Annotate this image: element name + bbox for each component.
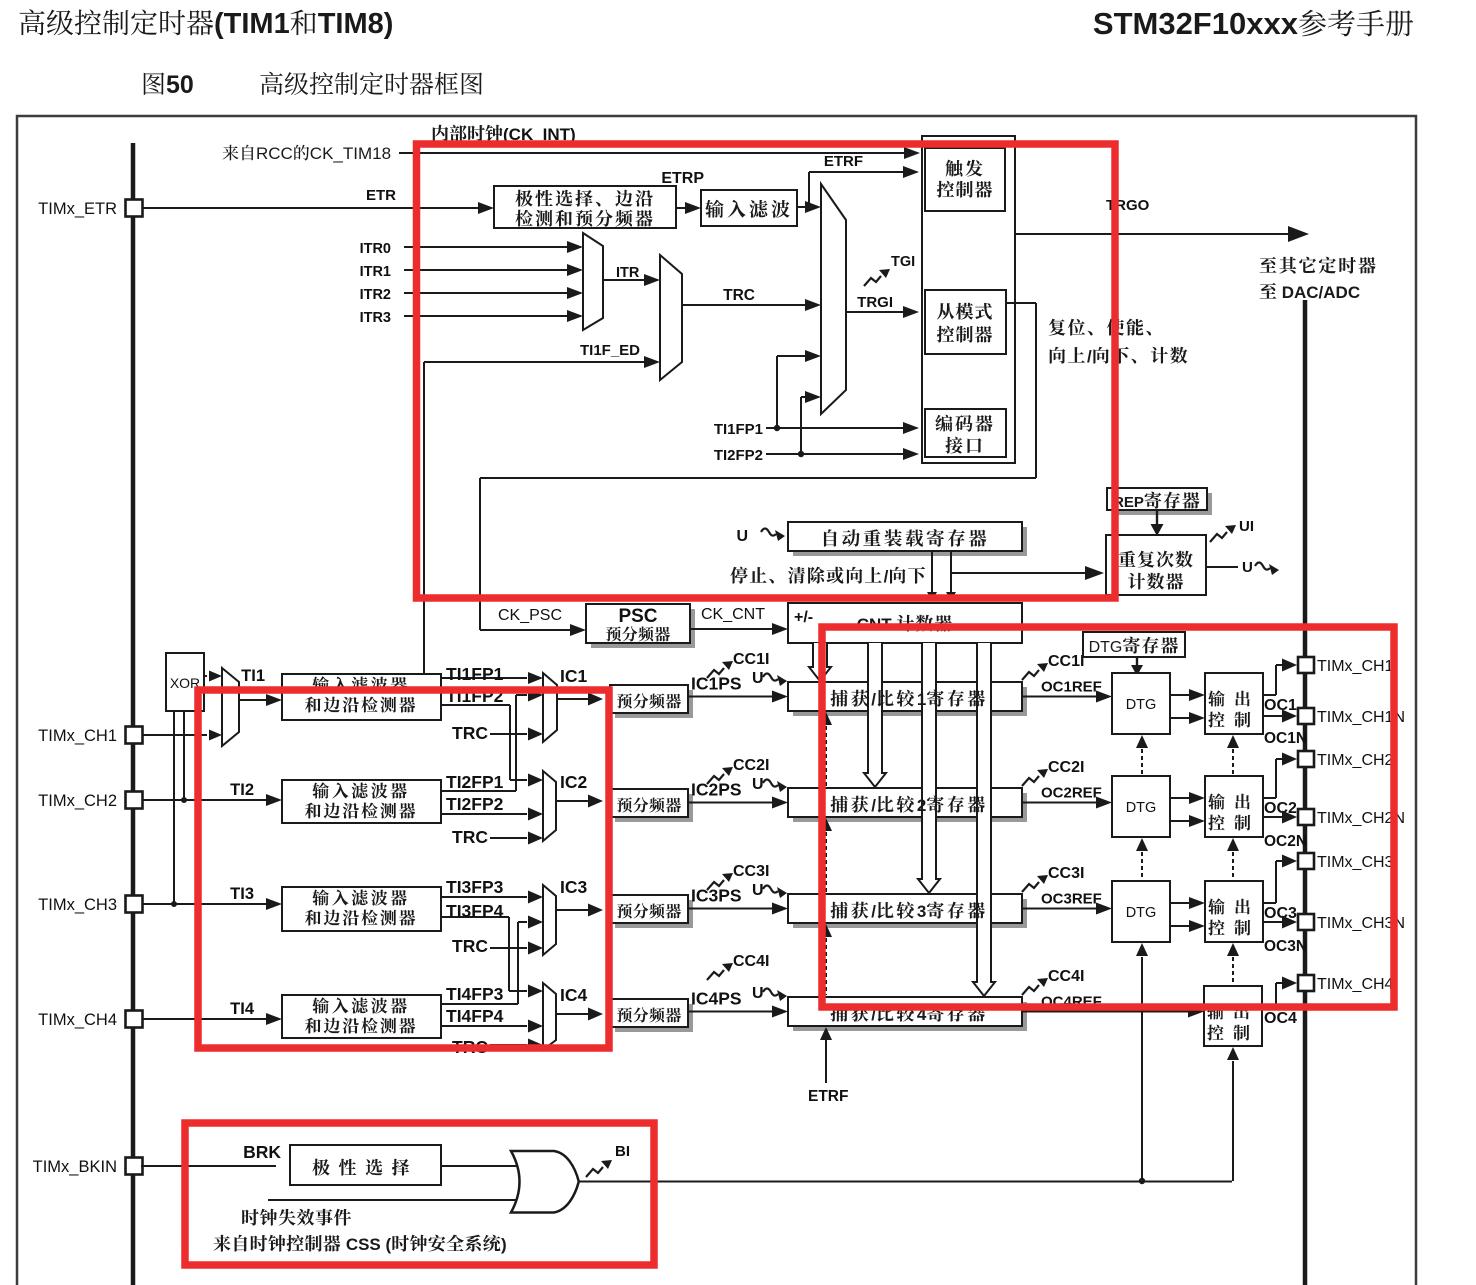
wire BRK from TIMx_BKIN [141, 1165, 276, 1167]
label 时钟失效事件 [242, 1209, 351, 1226]
box input filter & edge detector 3 输入滤波器和边沿检测器 [282, 887, 441, 931]
svg-text:50: 50 [166, 71, 194, 99]
svg-text:U: U [736, 528, 748, 545]
label 停止、清除或向上/向下 [730, 567, 882, 584]
wire ARR to CNT (x2) [931, 551, 933, 594]
svg-text:+/-: +/- [794, 609, 813, 626]
svg-text:TI4FP4: TI4FP4 [446, 1006, 504, 1026]
svg-text:CK_TIM18: CK_TIM18 [310, 144, 391, 163]
wire IC4PS [688, 1011, 773, 1013]
wire ITR3 [404, 315, 568, 317]
wire polarity select to OR gate [441, 1165, 520, 1167]
wire OC2N to TIMx_CH2N [1263, 816, 1283, 818]
svg-text:OC3REF: OC3REF [1041, 891, 1102, 908]
wire OC1REF [1022, 696, 1097, 698]
label 来自RCC的CK_TIM18 [223, 145, 254, 161]
wire OC3N to TIMx_CH3N [1263, 921, 1283, 923]
svg-text:CC4I: CC4I [733, 953, 769, 970]
svg-text:TI3FP3: TI3FP3 [446, 877, 504, 897]
svg-text:TIMx_CH1: TIMx_CH1 [1317, 658, 1394, 675]
pin TIMx_CH4 [1298, 975, 1314, 991]
wire ETRP [676, 207, 688, 209]
wire IC1PS [688, 696, 773, 698]
svg-text:DTG: DTG [1089, 639, 1123, 656]
IC mux channel 2 [528, 774, 543, 787]
svg-text:TIMx_BKIN: TIMx_BKIN [33, 1158, 117, 1176]
svg-text:/: / [871, 690, 876, 709]
wire TI3 from pin [141, 903, 267, 905]
svg-text:OC3N: OC3N [1264, 938, 1307, 955]
svg-text:TIMx_CH3: TIMx_CH3 [1317, 854, 1394, 871]
svg-text:IC4: IC4 [560, 985, 588, 1005]
pin TIMx_CH4 [141, 1018, 143, 1020]
box input filter & edge detector 4 输入滤波器和边沿检测器 [282, 995, 441, 1038]
wire ETRF to trigger controller and TRGI mux [797, 206, 809, 208]
box capture/compare 4 register 捕获/比较4寄存器 [793, 1002, 1027, 1031]
event BI [586, 1167, 603, 1177]
wire IC3PS [688, 908, 773, 910]
svg-text:CC2I: CC2I [1048, 759, 1084, 776]
svg-text:BI: BI [615, 1143, 630, 1160]
box IC prescaler 1 预分频器 [615, 690, 693, 718]
event CC3I right [1022, 882, 1039, 892]
label 来自时钟控制器CSS (时钟安全系统) [213, 1235, 340, 1252]
svg-text:U: U [752, 776, 764, 793]
svg-text:OC1N: OC1N [1264, 730, 1307, 747]
svg-text:STM32F10xxx: STM32F10xxx [1093, 6, 1299, 41]
svg-text:3: 3 [917, 902, 926, 921]
box output control 2 输出控制 [1205, 776, 1263, 837]
mux TRC (2:1) [660, 255, 682, 380]
svg-text:U: U [752, 985, 764, 1002]
red highlight box 1 (clock/trigger section) [417, 144, 1116, 598]
svg-text:OC2: OC2 [1264, 800, 1297, 817]
wire OC1 to TIMx_CH1 [1263, 694, 1276, 696]
box trigger controller 触发控制器 [925, 148, 1005, 211]
box polarity select 极性选择 [290, 1145, 441, 1185]
svg-text:IC1: IC1 [560, 666, 588, 686]
wire OC3 to TIMx_CH3 [1263, 902, 1276, 904]
box DTG register DTG寄存器 [1083, 632, 1185, 657]
svg-text:DTG: DTG [1126, 800, 1157, 816]
wire TI4 from pin [141, 1018, 267, 1020]
box IC prescaler 3 预分频器 [615, 900, 693, 928]
hollow arrow CNT to CC3 [918, 643, 940, 893]
svg-text:ETR: ETR [366, 187, 396, 204]
svg-text:TIMx_CH4: TIMx_CH4 [38, 1011, 117, 1029]
box XOR [166, 653, 204, 711]
event CC1I right [1022, 670, 1039, 680]
pin TIMx_BKIN [141, 1165, 143, 1167]
box encoder interface 编码器接口 [925, 409, 1006, 457]
wire OC2REF [1022, 802, 1097, 804]
capture event column (dashed) at left of CC boxes [820, 712, 832, 725]
wire CK_TIM18 / CK_INT internal clock [399, 152, 916, 154]
pin TIMx_CH3 [1298, 853, 1314, 869]
svg-text:OC2REF: OC2REF [1041, 785, 1102, 802]
hollow arrow CNT to CC2 [864, 643, 886, 787]
svg-text:U: U [1242, 559, 1253, 576]
svg-text:TGI: TGI [891, 254, 915, 270]
svg-text:TI1: TI1 [241, 667, 265, 685]
svg-text:ITR: ITR [616, 265, 640, 281]
svg-text:TRC: TRC [452, 723, 488, 743]
svg-text:CC3I: CC3I [733, 863, 769, 880]
red highlight box 3 (brake section) [185, 1123, 654, 1265]
svg-text:/: / [1087, 347, 1092, 366]
OR gate [511, 1151, 579, 1213]
svg-text:CC1I: CC1I [733, 651, 769, 668]
wire ITR to TRC mux [603, 279, 645, 281]
wire ETRF into CC4 [820, 1027, 832, 1040]
brake column into DTGs (dashed) [1136, 735, 1148, 748]
red highlight box 4 (capture/compare + output section) [822, 627, 1394, 1007]
svg-text:CSS (: CSS ( [341, 1235, 391, 1254]
pin TIMx_CH3 [141, 903, 143, 905]
box auto-reload register 自动重装载寄存器 [793, 527, 1027, 556]
mux TI1 select [204, 675, 207, 677]
svg-text:TI4FP3: TI4FP3 [446, 984, 504, 1004]
wire ITR2 [404, 292, 568, 294]
svg-text:TI4: TI4 [230, 1000, 255, 1018]
svg-text:CC3I: CC3I [1048, 865, 1084, 882]
pin TIMx_ETR [141, 207, 143, 209]
IC mux channel 4 [528, 985, 543, 998]
pin TIMx_CH2 [141, 799, 143, 801]
wire CK_CNT [690, 628, 773, 630]
svg-text:TI1FP1: TI1FP1 [714, 421, 763, 438]
pin TIMx_CH2 [1298, 751, 1314, 767]
box counter CNT计数器 [788, 603, 1022, 643]
svg-text:DAC/ADC: DAC/ADC [1277, 283, 1360, 302]
box IC prescaler 4 预分频器 [615, 1004, 693, 1032]
svg-text:TIM8): TIM8) [318, 8, 394, 40]
wire OC2 to TIMx_CH2 [1263, 797, 1276, 799]
svg-text:ETRP: ETRP [661, 170, 704, 187]
svg-text:): ) [501, 1235, 507, 1254]
left pin bus (thick vertical) [131, 143, 136, 1285]
svg-text:IC4PS: IC4PS [691, 989, 742, 1009]
mux TRGI (4:1) [821, 184, 846, 414]
svg-text:ITR1: ITR1 [360, 264, 391, 280]
svg-text:TIMx_CH1: TIMx_CH1 [38, 727, 117, 745]
brake column into output controls (dashed) [1227, 735, 1239, 748]
svg-text:TRGI: TRGI [857, 294, 893, 311]
box output control 3 输出控制 [1205, 881, 1263, 942]
event CC1I left [707, 668, 724, 678]
svg-text:/: / [871, 796, 876, 815]
svg-text:CK_PSC: CK_PSC [498, 607, 562, 624]
svg-text:TI3FP4: TI3FP4 [446, 901, 504, 921]
wire TRGI to slave mode controller [846, 311, 905, 313]
svg-text:CC1I: CC1I [1048, 653, 1084, 670]
svg-text:OC2N: OC2N [1264, 833, 1307, 850]
capture/compare register texts [831, 690, 869, 707]
svg-text:TIMx_ETR: TIMx_ETR [38, 200, 117, 218]
wire XOR taps to CH2/CH3 [173, 711, 175, 904]
hollow arrow CNT to CC1 [809, 643, 831, 681]
wire ETR from TIMx_ETR pin [141, 207, 480, 209]
svg-text:1: 1 [917, 690, 926, 709]
page title 高级控制定时器(TIM1和TIM8) [20, 9, 214, 35]
svg-text:TI2FP1: TI2FP1 [446, 772, 504, 792]
event CC2I left [707, 774, 724, 784]
svg-text:IC2PS: IC2PS [691, 780, 742, 800]
box DTG 2 [1112, 776, 1170, 837]
wire TRC to TRGI mux [682, 304, 806, 306]
svg-text:IC3PS: IC3PS [691, 886, 742, 906]
event TGI [864, 276, 881, 286]
mux ITR (4:1) [583, 233, 603, 330]
svg-text:DTG: DTG [1126, 697, 1157, 713]
svg-text:OC3: OC3 [1264, 905, 1297, 922]
pin TIMx_CH1 [1298, 657, 1314, 673]
box slave mode controller 从模式控制器 [925, 290, 1006, 354]
svg-text:DTG: DTG [1126, 905, 1157, 921]
svg-text:UI: UI [1239, 518, 1254, 535]
hollow arrow CNT to CC4 [973, 643, 995, 996]
box controller container [922, 136, 1015, 463]
box capture/compare 3 register 捕获/比较3寄存器 [793, 899, 1027, 928]
box REP register REP寄存器 [1112, 493, 1212, 515]
svg-text:U: U [752, 882, 764, 899]
svg-text:TRC: TRC [452, 827, 488, 847]
wire BI output [578, 1181, 1232, 1183]
box capture/compare 2 register 捕获/比较2寄存器 [793, 793, 1027, 822]
svg-text:TI1FP1: TI1FP1 [446, 664, 504, 684]
svg-text:ETRF: ETRF [808, 1088, 848, 1105]
box DTG 1 [1112, 673, 1170, 734]
svg-text:CC4I: CC4I [1048, 968, 1084, 985]
wire TI2FP2 to TRGI mux and encoder [766, 453, 905, 455]
wire TI1 into filter1 [239, 699, 267, 701]
svg-text:ITR2: ITR2 [360, 287, 391, 303]
svg-text:(TIM1: (TIM1 [214, 8, 290, 40]
svg-text:TRC: TRC [452, 936, 488, 956]
svg-text:TIMx_CH2: TIMx_CH2 [1317, 752, 1394, 769]
wire TI2 from pin [141, 799, 267, 801]
svg-text:ITR0: ITR0 [360, 241, 391, 257]
svg-text:TI2: TI2 [230, 781, 254, 799]
wire DTG register to DTG1 [1136, 657, 1138, 666]
event CC4I left [707, 970, 724, 980]
svg-text:IC1PS: IC1PS [691, 674, 742, 694]
wire OC1N to TIMx_CH1N [1263, 715, 1283, 717]
svg-text:TI3: TI3 [230, 885, 254, 903]
svg-text:TI2FP2: TI2FP2 [446, 794, 504, 814]
svg-text:ITR3: ITR3 [360, 310, 391, 326]
wire ITR1 [404, 269, 568, 271]
IC mux channel 1 [441, 677, 527, 679]
event CC4I right [1022, 985, 1039, 995]
svg-text:TIMx_CH2: TIMx_CH2 [38, 792, 117, 810]
red highlight box 2 (input filter section) [198, 690, 609, 1048]
figure caption 图50 高级控制定时器框图 [144, 72, 165, 94]
wire slave mode controller to PSC (CK_PSC) [1006, 302, 1036, 304]
svg-text:TI2FP2: TI2FP2 [714, 447, 763, 464]
svg-text:PSC: PSC [618, 606, 657, 627]
svg-text:2: 2 [917, 796, 926, 815]
svg-text:IC3: IC3 [560, 877, 588, 897]
box repetition counter 重复次数计数器 [1106, 535, 1206, 595]
wire OC4REF [1022, 1011, 1189, 1013]
event CC2I right [1022, 776, 1039, 786]
svg-text:TIMx_CH3: TIMx_CH3 [38, 896, 117, 914]
label 复位、使能、向上/向下、计数 [1049, 319, 1151, 336]
wire TI1FP1 to TRGI mux and encoder [766, 427, 905, 429]
svg-text:ETRF: ETRF [824, 153, 863, 170]
svg-text:U: U [752, 670, 764, 687]
svg-text:TRC: TRC [723, 287, 755, 304]
box polarity selection edge detector prescaler 极性选择、边沿检测和预分频器 [494, 186, 676, 228]
svg-text:CC2I: CC2I [733, 757, 769, 774]
svg-text:OC1: OC1 [1264, 697, 1297, 714]
pin TIMx_CH1 [141, 734, 143, 736]
wire ITR0 [404, 246, 568, 248]
svg-text:OC4: OC4 [1264, 1010, 1297, 1027]
event U out of repetition counter [1206, 566, 1238, 568]
pin TIMx_CH2N [1298, 809, 1314, 825]
wire REP to repetition counter [1156, 510, 1158, 524]
box capture/compare 1 register 捕获/比较1寄存器 [793, 687, 1027, 716]
svg-text:OC1REF: OC1REF [1041, 679, 1102, 696]
pin TIMx_CH3N [1298, 914, 1314, 930]
svg-text:BRK: BRK [243, 1142, 281, 1162]
label 至其它定时器 至DAC/ADC [1260, 257, 1376, 274]
wire TI1F_ED [424, 361, 645, 363]
wires DTG to output control [1170, 694, 1190, 696]
box output control 4 输出控制 [1204, 986, 1262, 1046]
label 内部时钟 (CK_INT) [433, 125, 503, 142]
svg-text:/: / [884, 567, 889, 586]
wire OC3REF [1022, 908, 1097, 910]
box input filter & edge detector 1 输入滤波器和边沿检测器 [282, 674, 441, 720]
svg-text:RCC: RCC [256, 144, 293, 163]
wire IC2PS [688, 802, 773, 804]
svg-text:IC2: IC2 [560, 772, 588, 792]
svg-text:CK_CNT: CK_CNT [701, 606, 765, 623]
box DTG 3 [1112, 881, 1170, 942]
wire OC4 to TIMx_CH4 [1262, 1007, 1276, 1009]
svg-text:TIMx_CH4: TIMx_CH4 [1317, 976, 1394, 993]
box IC prescaler 2 预分频器 [615, 794, 693, 822]
box PSC prescaler PSC预分频器 [591, 609, 695, 648]
event CC3I left [707, 880, 724, 890]
svg-text:TI1F_ED: TI1F_ED [580, 342, 640, 359]
IC mux channel 3 [441, 896, 527, 898]
wire clock failure event into OR gate [268, 1199, 519, 1201]
box input filter 输入滤波 [701, 190, 797, 226]
wire TRGO output [1015, 233, 1288, 235]
wire U to repetition counter [951, 572, 1087, 574]
right pin bus (thick vertical) [1303, 300, 1308, 1285]
svg-text:/: / [871, 902, 876, 921]
box output control 1 输出控制 [1205, 673, 1263, 734]
box input filter & edge detector 2 输入滤波器和边沿检测器 [282, 780, 441, 823]
pin TIMx_CH1N [1298, 708, 1314, 724]
event UI [1210, 532, 1227, 542]
